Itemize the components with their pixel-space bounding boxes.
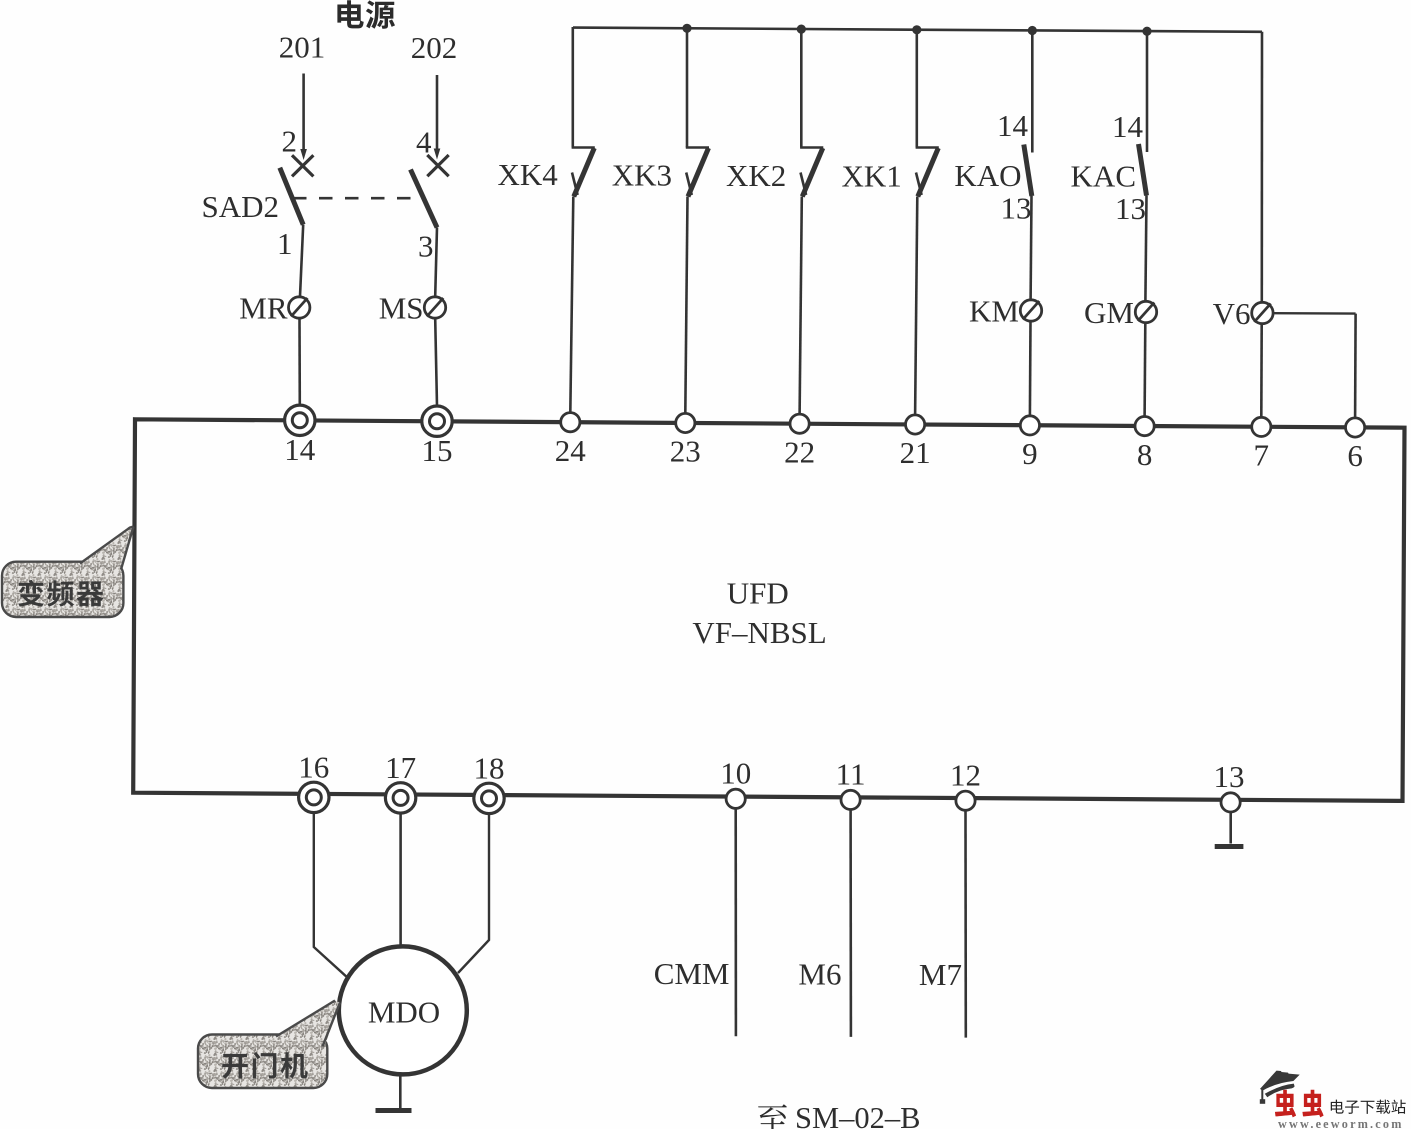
- svg-text:15: 15: [422, 433, 453, 468]
- terminal 21: [906, 415, 925, 434]
- svg-text:SAD2: SAD2: [201, 189, 279, 224]
- limit switch XK3: barb: [686, 173, 692, 196]
- limit switch XK3: wire from bus: [686, 28, 689, 148]
- svg-text:24: 24: [555, 433, 587, 468]
- terminal 22: [790, 414, 809, 433]
- wire KAO to connector KM: [1029, 196, 1033, 300]
- svg-text:XK3: XK3: [612, 158, 672, 193]
- svg-text:9: 9: [1022, 436, 1038, 471]
- junction at KAO: [1028, 26, 1037, 35]
- svg-text:23: 23: [670, 434, 701, 469]
- limit switch XK1: barb: [916, 173, 922, 196]
- svg-text:7: 7: [1254, 438, 1270, 473]
- svg-text:16: 16: [298, 749, 329, 784]
- wire M6 from terminal 11: [849, 810, 852, 1037]
- wire connector MS to terminal 15: [435, 319, 437, 407]
- svg-text:14: 14: [284, 432, 316, 467]
- svg-text:8: 8: [1137, 437, 1153, 472]
- limit switch XK3: step: [686, 146, 709, 149]
- limit switch XK1: wire to terminal: [915, 197, 917, 416]
- terminal 6: [1346, 418, 1365, 437]
- limit switch XK4: step: [572, 146, 595, 149]
- svg-text:MS: MS: [379, 291, 424, 326]
- limit switch XK1: blade: [918, 148, 939, 197]
- limit switch XK4: wire from bus: [571, 27, 574, 148]
- limit switch XK2: wire to terminal: [800, 197, 802, 415]
- limit switch XK3: blade: [688, 148, 709, 197]
- breaker SAD2 pole B blade: [411, 170, 438, 228]
- svg-text:UFD: UFD: [727, 576, 789, 611]
- terminal 8: [1135, 417, 1154, 436]
- svg-text:MR: MR: [239, 291, 288, 326]
- terminal 18 (double circle): [474, 783, 504, 813]
- svg-text:21: 21: [900, 435, 931, 470]
- svg-text:KM: KM: [969, 294, 1019, 329]
- relay contact KAO: blade: [1024, 145, 1032, 197]
- terminal 14 (double circle): [285, 405, 315, 435]
- limit switch XK2: wire from bus: [800, 28, 803, 147]
- terminal 17 (double circle): [385, 783, 415, 813]
- svg-text:10: 10: [720, 755, 751, 790]
- top bus wire: [573, 28, 1262, 32]
- terminal 24: [561, 413, 580, 432]
- svg-text:13: 13: [1001, 191, 1032, 226]
- limit switch XK4: blade: [574, 148, 595, 197]
- limit switch XK1: wire from bus: [915, 29, 918, 147]
- svg-text:VF–NBSL: VF–NBSL: [692, 615, 826, 650]
- limit switch XK2: blade: [802, 148, 823, 197]
- wire V6 branch right: [1273, 312, 1356, 315]
- terminal 9: [1020, 416, 1039, 435]
- wire from 201 to SAD2 contact 2: [302, 74, 305, 152]
- svg-text:MDO: MDO: [368, 995, 440, 1030]
- limit switch XK3: wire to terminal: [685, 197, 687, 415]
- limit switch XK4: wire to terminal: [570, 197, 573, 414]
- svg-text:KAO: KAO: [954, 158, 1021, 193]
- ground at terminal 13: [1229, 812, 1232, 844]
- svg-text:202: 202: [411, 30, 458, 65]
- svg-text:3: 3: [418, 229, 434, 264]
- svg-text:13: 13: [1214, 759, 1245, 794]
- ground below motor: [399, 1075, 402, 1108]
- terminal 16 (double circle): [299, 782, 329, 812]
- svg-text:KAC: KAC: [1071, 159, 1136, 194]
- inverter box UFD outline: [133, 419, 1404, 801]
- breaker SAD2 pole A blade: [280, 168, 303, 225]
- terminal 10: [726, 789, 745, 808]
- breaker SAD2 pole B fixed contact X (pin 4): [427, 155, 448, 176]
- mechanical link (dashed) between SAD2 poles: [293, 197, 424, 200]
- wire connector GM to terminal 8: [1143, 323, 1146, 417]
- wire terminal 17 to motor: [399, 813, 402, 947]
- terminal 15 (double circle): [422, 406, 452, 436]
- svg-text:12: 12: [950, 757, 981, 792]
- wire connector KM to terminal 9: [1029, 322, 1032, 417]
- limit switch XK2: barb: [801, 173, 807, 196]
- junction at XK2: [797, 25, 806, 34]
- svg-text:SM–02–B: SM–02–B: [795, 1101, 920, 1129]
- relay contact KAO: wire from bus: [1031, 31, 1034, 153]
- svg-text:4: 4: [416, 125, 432, 160]
- svg-text:V6: V6: [1213, 296, 1251, 331]
- wire M7 from terminal 12: [964, 810, 967, 1037]
- wire terminal 18 to motor: [458, 813, 489, 973]
- svg-text:2: 2: [282, 124, 298, 159]
- wire bus right corner down to connector V6: [1261, 32, 1264, 302]
- svg-text:CMM: CMM: [654, 956, 730, 991]
- relay contact KAC: blade: [1139, 144, 1147, 196]
- limit switch XK1: step: [916, 146, 939, 149]
- wire KAC to connector GM: [1145, 196, 1146, 302]
- terminal 7: [1252, 417, 1271, 436]
- terminal 23: [676, 413, 695, 432]
- svg-text:1: 1: [277, 226, 293, 261]
- limit switch XK2: step: [800, 146, 823, 149]
- svg-text:XK4: XK4: [498, 157, 559, 192]
- limit switch XK4: barb: [572, 173, 578, 196]
- svg-text:XK2: XK2: [726, 158, 786, 193]
- svg-text:18: 18: [474, 750, 505, 785]
- svg-text:14: 14: [997, 108, 1029, 143]
- junction at XK1: [912, 25, 921, 34]
- svg-text:11: 11: [836, 757, 866, 792]
- svg-text:XK1: XK1: [842, 159, 902, 194]
- relay contact KAC: wire from bus: [1146, 31, 1149, 152]
- label 至 SM-02-B (to SM-02-B): [757, 1104, 787, 1129]
- svg-text:M7: M7: [919, 957, 962, 992]
- breaker SAD2 pole A fixed contact X (pin 2): [292, 155, 313, 176]
- svg-text:www.eeworm.com: www.eeworm.com: [1278, 1117, 1404, 1129]
- svg-text:22: 22: [784, 434, 815, 469]
- watermark eeworm logo graduation cap: [1260, 1071, 1300, 1104]
- callout 开门机 (door operator) balloon: [198, 1035, 327, 1089]
- svg-text:M6: M6: [798, 957, 841, 992]
- net label 电源 (power source): [337, 0, 363, 28]
- motor MDO: [339, 946, 467, 1074]
- svg-text:6: 6: [1347, 438, 1363, 473]
- terminal 13: [1221, 793, 1240, 812]
- svg-text:201: 201: [279, 30, 326, 65]
- watermark logo 虫虫 (red): [1275, 1090, 1296, 1118]
- callout 变频器 (inverter) balloon: [2, 562, 123, 617]
- terminal 11: [841, 790, 860, 809]
- terminal 12: [956, 791, 975, 810]
- wire from 202 to SAD2 contact 4: [436, 75, 439, 151]
- wire CMM from terminal 10: [734, 809, 737, 1037]
- svg-text:14: 14: [1112, 109, 1144, 144]
- wire connector MR to terminal 14: [298, 319, 301, 406]
- wire SAD2 pole A to connector MR: [300, 225, 303, 297]
- svg-text:17: 17: [385, 750, 416, 785]
- svg-text:GM: GM: [1084, 295, 1134, 330]
- svg-text:13: 13: [1115, 191, 1146, 226]
- junction at KAC: [1142, 27, 1151, 36]
- wire SAD2 pole B to connector MS: [435, 228, 437, 297]
- wire terminal 16 to motor: [314, 812, 348, 978]
- wire connector V6 to terminal 7: [1260, 324, 1263, 418]
- junction at XK3: [682, 24, 691, 33]
- wire V6 branch down to terminal 6: [1354, 314, 1357, 418]
- watermark text 电子下载站: [1331, 1100, 1344, 1114]
